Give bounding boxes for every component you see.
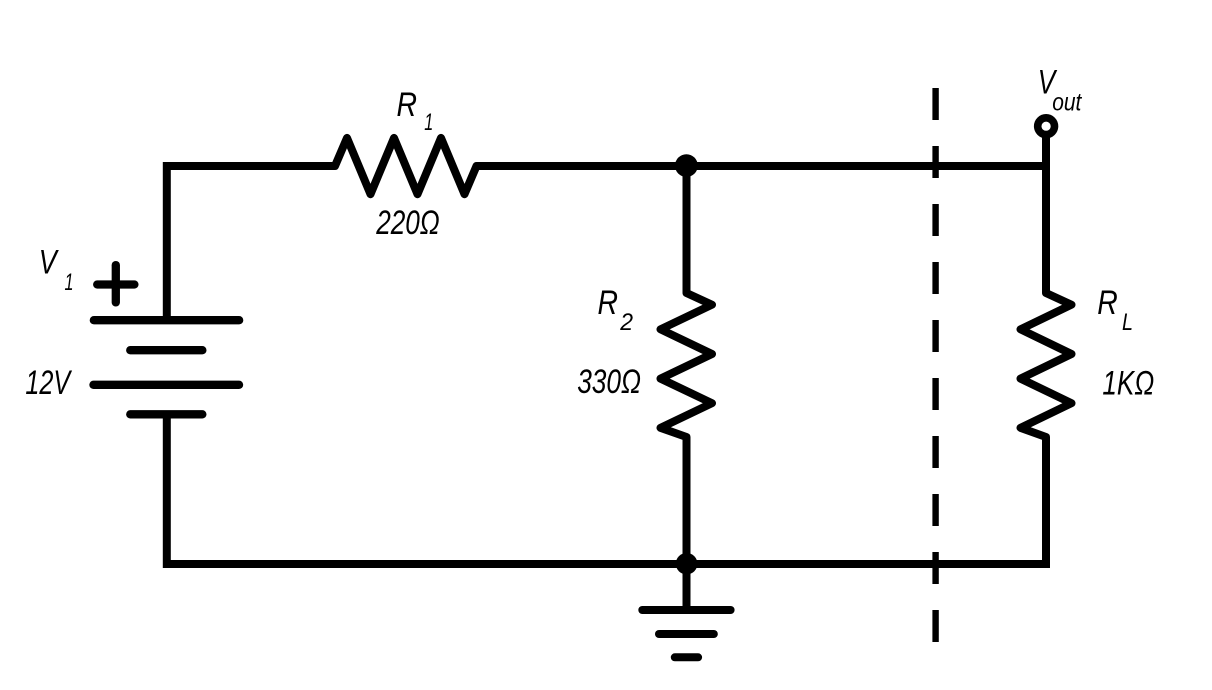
svg-text:220Ω: 220Ω	[375, 204, 439, 242]
svg-text:V: V	[39, 244, 60, 282]
svg-text:R: R	[397, 86, 418, 124]
node A junction dot	[675, 154, 698, 177]
Vout terminal circle	[1038, 118, 1055, 135]
svg-text:out: out	[1052, 89, 1082, 117]
svg-text:1: 1	[65, 269, 74, 296]
battery V1	[94, 320, 240, 414]
dashed separator line	[932, 88, 938, 642]
svg-text:R: R	[598, 284, 619, 322]
wire: bottom rail from RL to battery negative lead	[167, 415, 1050, 564]
svg-text:R: R	[1097, 284, 1118, 322]
wire: RL bottom lead	[1042, 437, 1050, 564]
svg-text:2: 2	[619, 309, 633, 336]
svg-text:1KΩ: 1KΩ	[1102, 365, 1154, 403]
wire: R2 top lead from node A	[683, 166, 691, 293]
wire: R2 bottom lead to node B	[683, 437, 691, 564]
svg-text:12V: 12V	[25, 364, 72, 402]
wire: ground stem from node B	[683, 564, 691, 610]
svg-text:1: 1	[424, 109, 433, 136]
ground	[642, 610, 730, 657]
svg-text:L: L	[1122, 309, 1133, 336]
node B junction dot	[676, 553, 698, 575]
wire: top rail from R1 to node A and on to Vout branch	[477, 162, 1047, 170]
wire: battery positive lead up to top-left corner and top rail to R1	[167, 166, 335, 320]
resistor RL	[1021, 283, 1072, 447]
battery plus sign	[97, 265, 134, 302]
wire: Vout terminal lead down to top rail and RL top lead	[1042, 126, 1050, 293]
svg-text:330Ω: 330Ω	[577, 363, 641, 401]
resistor R2	[661, 283, 713, 447]
resistor R1	[325, 138, 486, 194]
